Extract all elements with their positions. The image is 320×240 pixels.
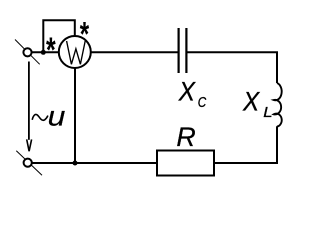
svg-text:R: R: [176, 122, 195, 152]
label XC: [178, 77, 207, 110]
inductor coil: [274, 83, 282, 127]
svg-text:u: u: [48, 101, 66, 131]
terminal slash top-left: [15, 40, 40, 65]
label ~ (sine) of u: [32, 114, 48, 120]
svg-text:*: *: [80, 16, 90, 54]
node junction dot left of wattmeter: [41, 50, 46, 55]
wire resistor to bottom-left terminal: [32, 162, 157, 164]
wire wattmeter to capacitor: [91, 51, 178, 53]
svg-text:X: X: [242, 87, 260, 116]
wire voltage-coil loop over wattmeter: [43, 20, 75, 53]
svg-text:C: C: [198, 94, 207, 110]
svg-text:*: *: [46, 32, 56, 70]
terminal top-left circle: [23, 48, 31, 56]
svg-text:X: X: [178, 77, 196, 106]
node junction dot on bottom wire: [73, 161, 78, 166]
wattmeter W circle: [59, 36, 91, 68]
svg-text:L: L: [263, 105, 272, 121]
wire capacitor to top-right corner down to inductor: [187, 52, 278, 83]
wattmeter letter W: [67, 41, 86, 64]
wire voltage arrow line u: [28, 62, 30, 140]
wire inductor to bottom-right corner to resistor: [214, 126, 277, 163]
resistor body: [157, 151, 214, 176]
arrowhead of u: [27, 139, 32, 151]
wire top-left segment: [31, 51, 58, 53]
terminal slash bottom-left: [16, 151, 42, 175]
label XL: [242, 87, 273, 120]
wire wattmeter voltage-coil vertical: [74, 68, 76, 163]
terminal bottom-left circle: [24, 159, 32, 167]
capacitor plates: [179, 28, 187, 73]
